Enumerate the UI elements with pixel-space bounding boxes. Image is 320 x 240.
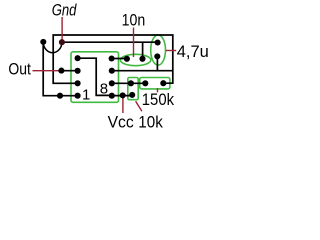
pad C2 top	[155, 39, 161, 45]
pad R1 right	[160, 80, 166, 86]
pin 6	[109, 68, 115, 74]
node B (Gnd junction)	[59, 39, 65, 45]
svg-text:Gnd: Gnd	[52, 2, 77, 20]
wire: left vertical down to pin4L row	[43, 42, 77, 96]
leader Out	[33, 70, 59, 72]
svg-text:8: 8	[100, 81, 108, 98]
wire: Out node to pin2L	[61, 70, 77, 72]
svg-text:150k: 150k	[142, 91, 175, 109]
pad R2 top	[128, 80, 134, 86]
capacitor C2 4,7u outline	[151, 35, 166, 65]
leader 10k	[136, 101, 142, 111]
resistor R1 150k outline	[140, 78, 170, 89]
leader 10n	[133, 28, 135, 58]
wire: inner link pin1L-corner-pin8	[78, 58, 112, 95]
pin 8	[109, 93, 115, 99]
pad C1 right	[139, 56, 145, 62]
node C (bottom jumper end)	[57, 93, 63, 99]
resistor R2 10k outline	[128, 78, 138, 100]
node A (jumper left)	[40, 39, 46, 45]
pin 7	[109, 80, 115, 86]
leader Gnd	[61, 17, 63, 40]
svg-text:1: 1	[82, 87, 90, 104]
wire: 4,7u bottom pad drop to row2 wire	[156, 56, 158, 70]
wire: row4 right to 10k bottom pad	[112, 95, 132, 97]
capacitor C1 10n outline	[120, 54, 150, 65]
pin 5	[109, 55, 115, 61]
pin 2	[75, 80, 81, 86]
wire: row1 right to 10n left pad	[112, 58, 127, 60]
node Out	[58, 68, 64, 74]
leader 4,7u	[166, 50, 176, 52]
wire: curved jumper between top-left dots	[43, 42, 62, 53]
pad R2 bottom	[129, 92, 135, 98]
svg-text:10n: 10n	[122, 12, 146, 30]
wire: row3 right to 150k left pad	[112, 82, 146, 84]
leader Vcc	[122, 98, 124, 114]
pin 4	[75, 55, 81, 61]
wire: rail pin3L -> left up -> top -> right down -> 150k right pad	[53, 35, 173, 83]
wire: branch down to 10n right pad	[142, 42, 144, 59]
wire: row2 right to right rail	[112, 70, 173, 72]
svg-text:Out: Out	[8, 60, 31, 78]
svg-text:4,7u: 4,7u	[177, 43, 209, 61]
pin 1	[75, 93, 81, 99]
svg-text:10k: 10k	[138, 113, 163, 131]
pad C1 left	[124, 56, 130, 62]
svg-text:Vcc: Vcc	[108, 113, 134, 131]
leader 150k	[157, 88, 159, 92]
op-amp U1 (DIP-8 outline)	[71, 52, 119, 103]
pad R1 left	[142, 80, 148, 86]
pad C2 bottom	[154, 53, 160, 59]
wire: Gnd net horizontal to 4,7u top pad	[62, 41, 158, 43]
pin 3	[75, 68, 81, 74]
node Vcc	[120, 92, 126, 98]
